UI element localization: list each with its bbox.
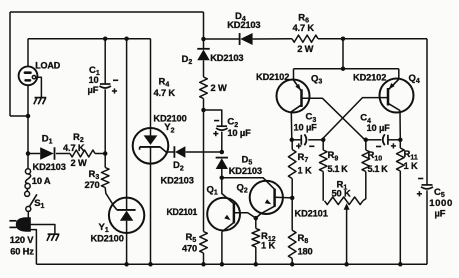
wire Q4 emitter drop (398, 69, 400, 80)
node C3 right junction (321, 138, 326, 143)
label C1 plus (112, 90, 117, 92)
wire Q1 collector (222, 178, 234, 204)
transistor Q1 base bar (233, 203, 236, 223)
wire C1 bottom lead (104, 89, 106, 153)
node R8 bottom rail (290, 262, 295, 267)
SCR Y1 cathode bar (117, 209, 136, 211)
svg-text:µF: µF (435, 209, 446, 219)
wire top corner down (203, 12, 205, 49)
wire R7 to R8 (291, 179, 293, 231)
svg-text:5.1 K: 5.1 K (328, 164, 349, 174)
label C2 plus (213, 133, 218, 135)
svg-text:2 W: 2 W (211, 83, 227, 93)
node R4-C2-R5 junction (201, 108, 206, 113)
SCR Y2 anode lead into triangle (150, 128, 152, 136)
label C1 minus (113, 79, 118, 81)
wire top outer horizontal (10, 11, 204, 13)
resistor R2 (70, 150, 95, 157)
wire D4 junction to D4 (204, 38, 240, 40)
transistor Q3 emitter (294, 80, 302, 91)
wire node to C2 (204, 110, 222, 126)
svg-text:4.7 K: 4.7 K (63, 143, 85, 153)
label C4 plus (391, 145, 396, 147)
svg-text:4.7 K: 4.7 K (154, 88, 176, 98)
svg-text:KD2101: KD2101 (295, 209, 328, 219)
node Y1 top junction (124, 36, 129, 41)
wire Y2 gate to D2 (166, 151, 174, 153)
node Q1 base / Q2 emitter / R12 junction (254, 216, 258, 221)
load ground-pin hole (32, 76, 35, 79)
node Q2 base junction (290, 196, 295, 201)
wire D4 to R6 (253, 38, 292, 40)
wire emitter rail (294, 68, 399, 70)
wire R12 to rail (255, 247, 257, 264)
transistor Q2 emitter arrow (265, 199, 272, 204)
node R5 bottom rail (201, 262, 206, 267)
wire left border vertical (9, 12, 11, 116)
node D1 branch junction (26, 151, 31, 156)
wire switch to plug (27, 211, 29, 218)
SCR Y2 triangle down (144, 135, 158, 145)
node R11 bottom rail (398, 262, 403, 267)
wire Q3 emitter drop (293, 69, 295, 80)
transistor Q1 emitter arrow (224, 215, 230, 221)
node Y2 bottom rail (148, 262, 153, 267)
label C2 minus (214, 120, 219, 122)
load slot lower (24, 79, 31, 82)
label C5 minus (418, 178, 423, 180)
node load-bottom-left junction (26, 114, 31, 119)
node C1 top junction (103, 36, 108, 41)
node R12 bottom rail (254, 262, 258, 267)
svg-text:10 A: 10 A (32, 176, 51, 186)
wire plug lower to bottom rail (31, 230, 37, 265)
svg-text:5.1 K: 5.1 K (368, 164, 389, 174)
wire mid drop to emitter rail (342, 39, 344, 69)
svg-text:1 K: 1 K (261, 241, 275, 251)
transistor Q3 emitter arrow (295, 84, 301, 90)
diode D2 vertical (197, 48, 210, 50)
wire Q4 collector down (399, 111, 401, 140)
wire C5 to bottom rail (426, 190, 428, 264)
resistor R12 (255, 218, 257, 228)
node C3 left junction (290, 138, 295, 143)
resistor R9 (322, 140, 324, 150)
svg-text:1 K: 1 K (404, 161, 418, 171)
wire right border down (426, 39, 428, 185)
capacitor C3 (300, 135, 302, 145)
SCR Y2 circle (133, 128, 169, 164)
svg-text:KD2103: KD2103 (227, 20, 260, 30)
svg-text:180: 180 (298, 246, 313, 256)
wire D2v to R4 (203, 60, 205, 77)
capacitor C5 (422, 184, 433, 186)
wire D5 anode lead (221, 169, 223, 178)
node C4 right junction (398, 138, 403, 143)
wire C3 left (292, 139, 302, 141)
wire C3 right (308, 139, 323, 141)
wire left border to load bottom (10, 115, 28, 117)
wire load to chassis ground (36, 77, 42, 97)
transistor Q4 circle (380, 79, 414, 113)
transistor Q4 emitter arrow (389, 83, 395, 89)
wire Q3 collector down (290, 112, 293, 140)
svg-text:µF: µF (88, 85, 99, 95)
SCR Y2 gate line (160, 147, 166, 152)
wire D2 to D5 cathode (186, 151, 222, 153)
wire R4 to node (203, 99, 205, 111)
ground chassis at plug (48, 233, 60, 235)
label C4 minus (376, 146, 381, 148)
svg-text:10: 10 (89, 75, 99, 85)
transistor Q2 emitter (261, 206, 275, 214)
capacitor C4 (387, 135, 389, 145)
node Y1 bottom rail (124, 262, 129, 267)
potentiometer R1 (325, 197, 363, 205)
resistor R3 (104, 154, 106, 168)
wire R6 to right corner (318, 38, 427, 40)
svg-text:120 V: 120 V (10, 235, 34, 245)
wire plug upper to ground (31, 225, 55, 234)
svg-text:50 K: 50 K (332, 189, 351, 199)
capacitor C2 (217, 125, 228, 127)
wire inner top rail (28, 38, 151, 40)
svg-text:KD2103: KD2103 (229, 166, 262, 176)
node C4 left junction (364, 138, 369, 143)
svg-text:60 Hz: 60 Hz (10, 246, 34, 256)
node mid rail junction (341, 36, 346, 41)
transistor Q1 circle (207, 198, 240, 231)
svg-text:2 W: 2 W (297, 44, 313, 54)
SCR Y1 triangle up (120, 211, 133, 221)
diode D5 (216, 157, 228, 159)
wire fuse to switch (26, 189, 29, 192)
svg-text:KD2102: KD2102 (353, 72, 386, 82)
transistor Q4 collector (388, 103, 400, 110)
resistor R6 (292, 35, 318, 42)
resistor R8 (288, 230, 296, 258)
wire R1 wiper to rail (346, 206, 348, 265)
wire C4 left (366, 139, 382, 141)
wire Y1 cathode top lead (126, 39, 128, 210)
transistor Q3 base bar (300, 89, 303, 107)
wire Q2 base (275, 196, 293, 199)
wire R5 to rail (203, 253, 205, 264)
wire Y2 anode drop (150, 39, 152, 129)
capacitor C1 (100, 83, 111, 85)
svg-text:KD2103: KD2103 (161, 175, 194, 185)
node D5-Q1C-Q2C junction (220, 175, 225, 180)
wire C2 to D5 (221, 132, 223, 152)
label C3 plus (296, 145, 301, 147)
pot R1 wiper arrow (344, 203, 350, 210)
ground chassis at load (35, 97, 47, 99)
wire node down to R5 (203, 110, 205, 232)
svg-text:1000: 1000 (429, 198, 453, 209)
SCR Y1 gate line (113, 204, 117, 210)
wire bottom rail (36, 263, 427, 265)
transistor Q3 collector (291, 105, 301, 112)
svg-text:KD2100: KD2100 (91, 233, 124, 243)
svg-text:2 W: 2 W (71, 158, 87, 168)
transistor Q2 base bar (273, 189, 276, 207)
wire Q2 collector (222, 178, 275, 190)
wire Y1 anode bottom lead (126, 221, 128, 265)
fuse F1 10A (25, 169, 30, 174)
node wiper bottom rail (344, 262, 349, 267)
svg-text:4.7 K: 4.7 K (293, 23, 315, 33)
label C3 minus (309, 145, 314, 147)
wire C4 right (388, 139, 400, 141)
svg-text:KD2103: KD2103 (210, 53, 243, 63)
transistor Q4 emitter (388, 79, 399, 90)
SCR Y1 circle (109, 198, 144, 233)
resistor R11 (399, 140, 401, 148)
node Q1 emitter rail (220, 262, 225, 267)
node D5 cathode junction (220, 150, 225, 155)
svg-text:10 µF: 10 µF (227, 128, 251, 138)
svg-text:10 µF: 10 µF (294, 123, 318, 133)
load socket L1 circle (19, 66, 38, 85)
wire R11 to rail (399, 171, 401, 264)
wire Q1 emitter to rail (221, 232, 223, 265)
wire Y2 cathode bottom lead (150, 147, 152, 264)
diode D2 horizontal (173, 146, 175, 158)
transistor Q2 circle (250, 181, 283, 214)
svg-text:270: 270 (85, 180, 100, 190)
wire Q1 base (234, 213, 256, 218)
wire R8 to rail (291, 259, 293, 265)
wire R10 to pot (363, 172, 366, 201)
transistor Q1 emitter (222, 223, 234, 232)
wire R9 to pot (322, 172, 324, 201)
transistor Q4 base bar (387, 88, 390, 106)
label C5 plus (417, 193, 422, 195)
svg-text:KD2102: KD2102 (256, 72, 289, 82)
svg-text:KD2101: KD2101 (167, 207, 198, 217)
wire Q4 base (322, 98, 388, 140)
node emitter rail junction (341, 66, 346, 71)
wire R3 to Y1 gate (105, 188, 113, 205)
node R2-C1 junction (103, 151, 108, 156)
wire load bottom lead (27, 85, 29, 168)
load slot upper (24, 71, 32, 74)
svg-text:10 µF: 10 µF (367, 123, 391, 133)
wire R2 to C1 line (95, 153, 105, 155)
resistor R5 (200, 232, 208, 254)
SCR Y2 cathode bar (140, 146, 161, 148)
svg-text:1 K: 1 K (298, 166, 312, 176)
transistor Q3 circle (277, 80, 310, 113)
resistor R7 (291, 140, 293, 150)
diode D1 (28, 153, 40, 155)
plug 120V AC (16, 217, 31, 231)
svg-text:KD2103: KD2103 (33, 162, 66, 172)
node D4 junction (201, 37, 206, 42)
wire load top lead (27, 39, 29, 67)
svg-text:LOAD: LOAD (35, 60, 61, 70)
resistor R10 (365, 140, 367, 150)
wire C1 top lead (104, 39, 106, 84)
wire Q3 base (302, 98, 365, 140)
svg-text:470: 470 (182, 243, 197, 253)
resistor R4 (200, 77, 208, 99)
diode D4 (239, 33, 241, 45)
switch S1 (25, 191, 30, 196)
